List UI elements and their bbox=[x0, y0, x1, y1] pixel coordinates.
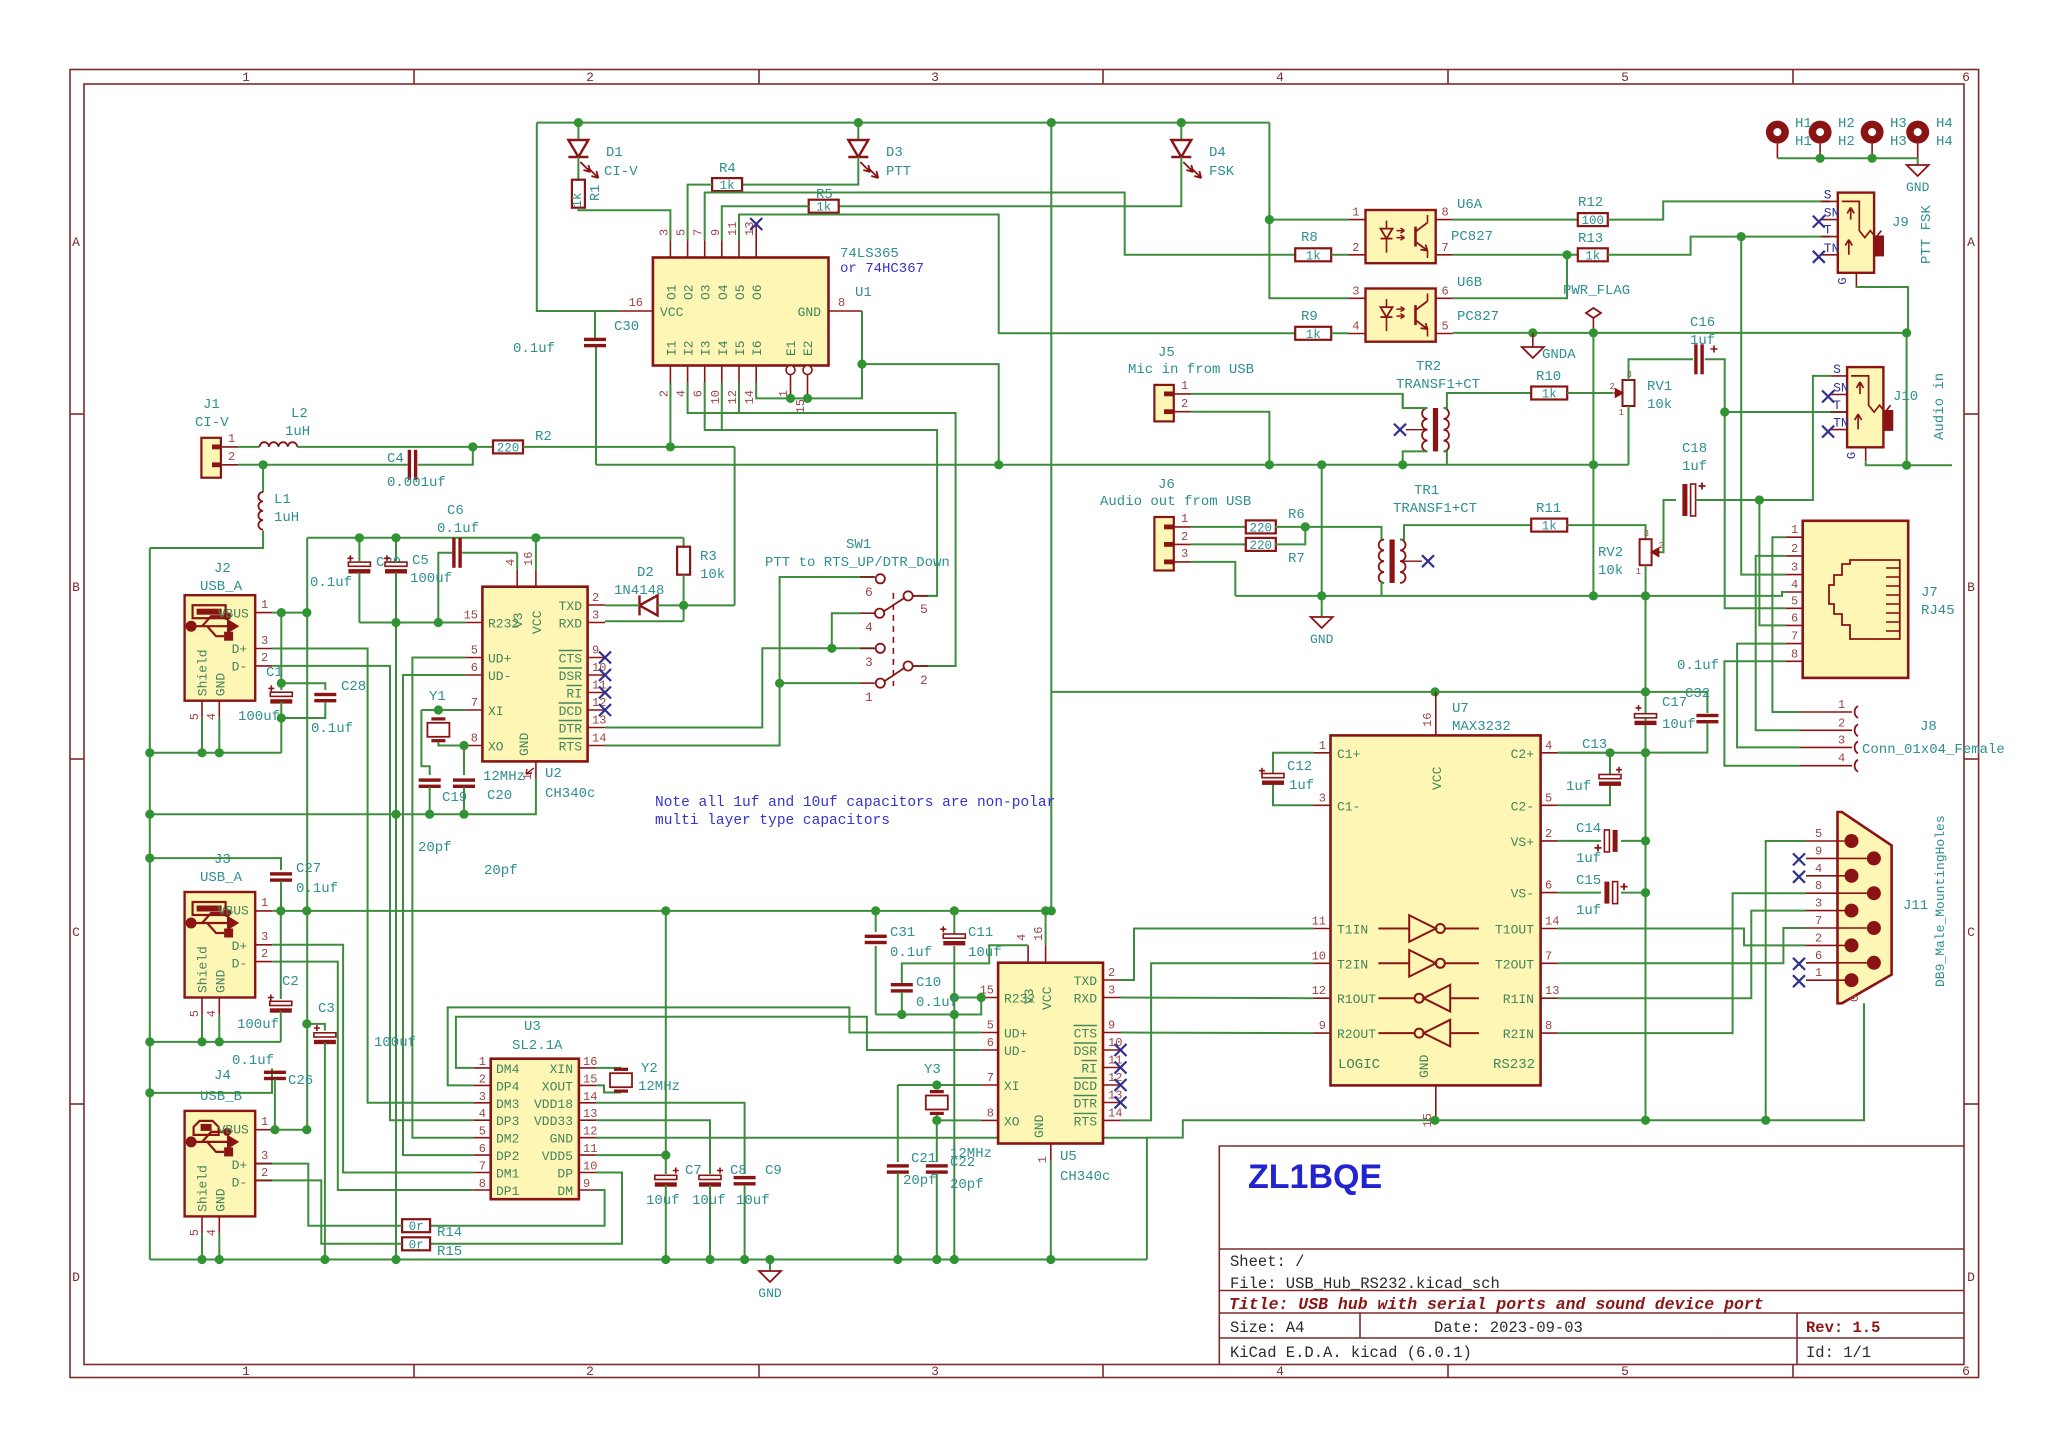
wire RXD row to junction bbox=[605, 620, 684, 622]
mounting hole H3 bbox=[1861, 121, 1884, 144]
wire J4 VBUS row bbox=[272, 1129, 307, 1131]
wire VDD18 to C9 bbox=[596, 1103, 745, 1174]
wire R4 left to U1 pin 5 bbox=[688, 185, 713, 241]
junction spine/J3 VBUS bbox=[302, 906, 311, 915]
svg-text:Size: A4: Size: A4 bbox=[1230, 1319, 1304, 1337]
U7 left pins bbox=[1314, 752, 1331, 754]
switch SW1 contact 2 bbox=[904, 661, 913, 670]
svg-text:T1OUT: T1OUT bbox=[1495, 923, 1534, 938]
svg-text:DCD: DCD bbox=[1074, 1079, 1098, 1094]
svg-text:D: D bbox=[72, 1270, 80, 1285]
svg-text:3: 3 bbox=[931, 1364, 939, 1379]
wire J11 pin5 to GND rail bbox=[1766, 841, 1806, 1120]
junction spine/C3 bbox=[302, 1019, 311, 1028]
junction H3 bbox=[1868, 154, 1877, 163]
svg-text:2: 2 bbox=[1838, 716, 1845, 730]
wire J1 pin2 row bbox=[238, 464, 408, 466]
svg-text:220: 220 bbox=[1250, 521, 1273, 535]
svg-text:3: 3 bbox=[1644, 529, 1649, 539]
svg-text:R11: R11 bbox=[1536, 501, 1561, 517]
wire D1 anode from top rail bbox=[577, 123, 579, 140]
svg-text:VCC: VCC bbox=[530, 610, 545, 634]
TR1 center tap X bbox=[1400, 560, 1422, 562]
svg-text:C30: C30 bbox=[614, 319, 639, 335]
svg-text:RV2: RV2 bbox=[1598, 545, 1623, 561]
wire L1 bottom to GND spine bbox=[150, 531, 263, 548]
junction C14/riser bbox=[1641, 836, 1650, 845]
wire C10 bottom bbox=[901, 992, 903, 1015]
svg-text:2: 2 bbox=[1352, 241, 1359, 255]
svg-text:4: 4 bbox=[865, 620, 873, 635]
svg-text:1uf: 1uf bbox=[1682, 459, 1707, 475]
wire GND bottom rail bbox=[150, 1259, 1147, 1261]
svg-text:6: 6 bbox=[471, 661, 478, 675]
LED D1 bbox=[568, 140, 588, 157]
svg-text:C6: C6 bbox=[447, 503, 464, 519]
svg-text:C10: C10 bbox=[916, 975, 941, 991]
svg-text:Sheet: /: Sheet: / bbox=[1230, 1253, 1304, 1271]
wire E1 stub to row bbox=[790, 397, 792, 399]
svg-text:USB_A: USB_A bbox=[200, 579, 243, 595]
svg-text:6: 6 bbox=[987, 1036, 994, 1050]
svg-text:UD-: UD- bbox=[1004, 1044, 1027, 1059]
wire C6 right to V3 bbox=[462, 552, 517, 554]
wire J10 G row bbox=[1866, 461, 1952, 465]
svg-text:1uf: 1uf bbox=[1690, 333, 1715, 349]
svg-text:R1IN: R1IN bbox=[1503, 992, 1534, 1007]
svg-text:1k: 1k bbox=[1542, 520, 1557, 534]
capacitor C20 bbox=[453, 778, 475, 781]
junction +5 drop bbox=[1047, 906, 1056, 915]
resistor R6 bbox=[1246, 520, 1276, 533]
wire SW1 pin1 to riser bbox=[780, 682, 860, 684]
wire D2 cathode to U2 TXD bbox=[605, 604, 640, 606]
wire U5 R232 row bbox=[954, 997, 981, 999]
no-connect bbox=[1115, 1097, 1127, 1109]
capacitor C29 bbox=[348, 562, 370, 566]
svg-text:10uf: 10uf bbox=[1662, 717, 1696, 733]
switch SW1 mechanical link dashed bbox=[892, 593, 894, 686]
wire C6 left to GND row bbox=[438, 553, 452, 623]
wire C20 bottom to cap rail bbox=[463, 787, 465, 814]
svg-text:11: 11 bbox=[1312, 915, 1326, 929]
svg-text:3: 3 bbox=[1108, 984, 1115, 998]
svg-text:J7: J7 bbox=[1921, 585, 1938, 601]
svg-text:10k: 10k bbox=[1598, 563, 1623, 579]
junction C5/cap rail bbox=[391, 810, 400, 819]
connector J7 RJ45 bbox=[1803, 521, 1909, 678]
U7 VCC pin 16 bbox=[1435, 692, 1437, 736]
svg-text:VDD18: VDD18 bbox=[534, 1097, 573, 1112]
svg-text:Shield: Shield bbox=[196, 1165, 211, 1212]
capacitor C1 bbox=[270, 692, 292, 696]
junction R232 stub bbox=[977, 993, 986, 1002]
optocoupler U6A PC827 bbox=[1366, 210, 1436, 263]
wire SW1 pin5 riser bbox=[928, 595, 937, 597]
junction J4 gnd bbox=[215, 1255, 224, 1264]
svg-text:3: 3 bbox=[479, 1090, 486, 1104]
wire RV1 bottom to GNDA rail bbox=[1628, 406, 1630, 465]
junction GNDA bbox=[1528, 328, 1537, 337]
wire R2 net down to TXD row bbox=[734, 447, 736, 606]
switch SW1 contact 6 bbox=[876, 574, 885, 583]
svg-text:5: 5 bbox=[188, 1229, 202, 1236]
svg-text:SN: SN bbox=[1833, 381, 1849, 396]
J11 pin 4 bbox=[1845, 869, 1859, 883]
switch SW1 lever 1-2 bbox=[884, 668, 905, 682]
svg-text:C20: C20 bbox=[487, 788, 512, 804]
svg-text:Y2: Y2 bbox=[641, 1061, 658, 1077]
junction C11/gnd link bbox=[950, 1010, 959, 1019]
svg-text:74LS365: 74LS365 bbox=[840, 246, 899, 262]
junction RTS/SW1 riser bbox=[775, 679, 784, 688]
J7 pins 1-8 bbox=[1786, 536, 1803, 538]
svg-text:R12: R12 bbox=[1578, 195, 1603, 211]
junction C17 top bbox=[1641, 687, 1650, 696]
capacitor C13 bbox=[1599, 775, 1621, 779]
svg-text:9: 9 bbox=[709, 229, 723, 236]
wire J6 pin1 to R6 bbox=[1191, 526, 1247, 528]
svg-text:8: 8 bbox=[1442, 206, 1449, 220]
svg-text:9: 9 bbox=[583, 1177, 590, 1191]
svg-text:C13: C13 bbox=[1582, 737, 1607, 753]
svg-text:C5: C5 bbox=[412, 553, 429, 569]
svg-text:8: 8 bbox=[479, 1177, 486, 1191]
svg-text:4: 4 bbox=[1791, 578, 1798, 592]
svg-text:DSR: DSR bbox=[559, 669, 583, 684]
svg-text:R2OUT: R2OUT bbox=[1337, 1027, 1376, 1042]
svg-text:5: 5 bbox=[1621, 1364, 1629, 1379]
wire J7 pin2 to J8 pin2 bbox=[1756, 556, 1800, 730]
junction C20/rail bbox=[459, 810, 468, 819]
wire J2 VBUS row bbox=[272, 612, 307, 614]
svg-text:R232: R232 bbox=[488, 617, 519, 632]
junction U1gnd/GNDA rail bbox=[994, 460, 1003, 469]
svg-text:2: 2 bbox=[1181, 397, 1188, 411]
wire junction to TR1 primary bbox=[1305, 527, 1381, 540]
svg-text:7: 7 bbox=[1815, 914, 1822, 928]
resistor R11 bbox=[1531, 519, 1567, 532]
svg-text:O6: O6 bbox=[750, 284, 765, 300]
svg-text:6: 6 bbox=[1962, 1364, 1970, 1379]
svg-text:2: 2 bbox=[261, 947, 268, 961]
resistor R7 bbox=[1246, 538, 1276, 551]
svg-text:R2: R2 bbox=[535, 429, 552, 445]
U5 bottom pin 1 GND bbox=[1050, 1144, 1052, 1161]
resistor R5 bbox=[809, 200, 839, 213]
junction C29/+5 bbox=[355, 533, 364, 542]
frame row ticks bbox=[70, 413, 84, 415]
svg-text:PTT: PTT bbox=[886, 164, 911, 180]
svg-text:0r: 0r bbox=[409, 1238, 424, 1252]
wire R2 right bbox=[523, 446, 735, 448]
wire H4 down to GND symbol bbox=[1917, 158, 1919, 165]
capacitor C28 bbox=[314, 693, 336, 696]
no-connect J11 pin 4 bbox=[1793, 871, 1805, 883]
no-connect J11 pin 6 bbox=[1793, 958, 1805, 970]
svg-text:VS-: VS- bbox=[1511, 887, 1534, 902]
svg-text:TN: TN bbox=[1824, 241, 1840, 256]
svg-text:10: 10 bbox=[1108, 1036, 1122, 1050]
svg-text:2: 2 bbox=[1815, 931, 1822, 945]
capacitor C15 bbox=[1604, 882, 1609, 904]
svg-text:5: 5 bbox=[1545, 791, 1552, 805]
wire J1 pin1 to L2 bbox=[238, 446, 260, 448]
wire U5 V3 from C10 bbox=[902, 945, 1028, 983]
svg-text:220: 220 bbox=[1250, 539, 1273, 553]
svg-text:VCC: VCC bbox=[1040, 986, 1055, 1010]
wire GND rail riser right side bbox=[1147, 1003, 1864, 1259]
junction VCC16/+5 rail bbox=[531, 533, 540, 542]
svg-text:FSK: FSK bbox=[1209, 164, 1235, 180]
svg-text:2: 2 bbox=[261, 1166, 268, 1180]
svg-text:XO: XO bbox=[1004, 1114, 1020, 1129]
svg-text:VCC: VCC bbox=[660, 305, 684, 320]
capacitor C10 bbox=[891, 983, 913, 986]
svg-text:O5: O5 bbox=[733, 284, 748, 300]
ground GNDA symbol bbox=[1522, 347, 1544, 358]
wire J4 gnd down bbox=[218, 1233, 220, 1259]
junction spine/C26 bbox=[145, 1088, 154, 1097]
wire U1 pin12 stub down bbox=[738, 383, 740, 413]
svg-text:C27: C27 bbox=[296, 861, 321, 877]
junction C7/GND rail bbox=[661, 1255, 670, 1264]
svg-text:File: USB_Hub_RS232.kicad_sch: File: USB_Hub_RS232.kicad_sch bbox=[1230, 1275, 1500, 1293]
svg-text:T: T bbox=[1833, 398, 1841, 413]
wire J3 gnd down bbox=[218, 1015, 220, 1042]
svg-text:3: 3 bbox=[592, 609, 599, 623]
svg-text:8: 8 bbox=[471, 732, 478, 746]
svg-text:DP3: DP3 bbox=[496, 1114, 519, 1129]
svg-text:2: 2 bbox=[1610, 382, 1615, 392]
capacitor C19 bbox=[419, 778, 441, 781]
J11 pin 2 bbox=[1845, 938, 1859, 952]
junction U5 VCC/+5 bbox=[1041, 906, 1050, 915]
no-connect J9 TN bbox=[1813, 251, 1825, 263]
svg-text:A: A bbox=[72, 235, 80, 250]
wire mounting holes to GND bbox=[1777, 157, 1917, 159]
wire L1 top bbox=[262, 465, 264, 492]
wire C1 C28 bottoms bbox=[280, 702, 282, 753]
svg-text:O1: O1 bbox=[664, 284, 679, 300]
jack J9 bbox=[1838, 193, 1874, 273]
U2 top pin 16 VCC bbox=[535, 570, 537, 587]
junction U7 GND/rail bbox=[1430, 1116, 1439, 1125]
svg-text:7: 7 bbox=[479, 1160, 486, 1174]
svg-text:5: 5 bbox=[675, 229, 689, 236]
resistor R4 bbox=[712, 178, 742, 191]
svg-text:0.001uf: 0.001uf bbox=[387, 475, 446, 491]
svg-text:0.1uf: 0.1uf bbox=[1677, 658, 1719, 674]
svg-text:PWR_FLAG: PWR_FLAG bbox=[1563, 283, 1630, 299]
wire U1 pin 7 to R8 bbox=[705, 193, 1295, 255]
wire C7 top bbox=[665, 1155, 667, 1174]
svg-text:1k: 1k bbox=[1306, 328, 1321, 342]
wire E2 stub to row bbox=[807, 397, 809, 399]
switch SW1 contact 3 bbox=[876, 644, 885, 653]
svg-text:C28: C28 bbox=[341, 679, 366, 695]
svg-text:XIN: XIN bbox=[550, 1062, 573, 1077]
svg-text:D2: D2 bbox=[637, 565, 654, 581]
svg-text:VS+: VS+ bbox=[1511, 835, 1535, 850]
svg-text:DSR: DSR bbox=[1074, 1044, 1098, 1059]
svg-text:20pf: 20pf bbox=[950, 1177, 984, 1193]
wire R10 to RV1 wiper bbox=[1567, 392, 1613, 394]
transformer TR2 body bbox=[1433, 408, 1438, 451]
junction SW1 3/4 bbox=[827, 644, 836, 653]
svg-text:GND: GND bbox=[550, 1132, 574, 1147]
junction J10G bbox=[1902, 461, 1911, 470]
wire U1 pin10 stub down bbox=[721, 383, 723, 430]
svg-text:PC827: PC827 bbox=[1451, 229, 1493, 245]
junction U6B6/R13 row bbox=[1562, 250, 1571, 259]
svg-text:A: A bbox=[1967, 235, 1975, 250]
wire U2 VCC pin from +5 rail bbox=[535, 538, 537, 570]
wire J3 D- to U3 DP1 bbox=[272, 962, 473, 1190]
wire C26 bottom to VBUS bbox=[274, 1079, 276, 1130]
svg-text:TXD: TXD bbox=[559, 599, 583, 614]
svg-text:1k: 1k bbox=[720, 179, 735, 193]
junction C3/GND rail bbox=[320, 1255, 329, 1264]
svg-text:U3: U3 bbox=[524, 1019, 541, 1035]
U1 top pins bbox=[669, 240, 671, 257]
svg-text:16: 16 bbox=[629, 296, 643, 310]
junction U5 GND/rail bbox=[1046, 1255, 1055, 1264]
svg-text:8: 8 bbox=[1815, 879, 1822, 893]
svg-text:LOGIC: LOGIC bbox=[1338, 1057, 1380, 1073]
wire C5 bottom GND drop bbox=[395, 573, 397, 1260]
svg-text:2: 2 bbox=[1108, 966, 1115, 980]
svg-text:2: 2 bbox=[1545, 827, 1552, 841]
wire D1 cathode to R1 bbox=[577, 157, 579, 181]
wire DM4 riser to U5 UD- bbox=[456, 1017, 981, 1068]
wire R5 left to U1 pin 9 bbox=[722, 206, 809, 240]
svg-text:GND: GND bbox=[1417, 1054, 1432, 1078]
svg-text:DP4: DP4 bbox=[496, 1079, 520, 1094]
svg-text:Shield: Shield bbox=[196, 946, 211, 993]
capacitor C12 wiring bbox=[1273, 753, 1314, 774]
resistor R2 bbox=[493, 440, 523, 453]
svg-text:J3: J3 bbox=[214, 852, 231, 868]
svg-text:GND: GND bbox=[1310, 632, 1334, 647]
junction C6/R232 bbox=[434, 618, 443, 627]
optocoupler U6B PC827 bbox=[1366, 289, 1436, 342]
svg-text:3: 3 bbox=[261, 930, 268, 944]
svg-text:3: 3 bbox=[1352, 284, 1359, 298]
svg-text:1k: 1k bbox=[1542, 388, 1557, 402]
IC U2 CH340c body bbox=[482, 587, 587, 762]
svg-text:DP: DP bbox=[557, 1167, 573, 1182]
wire J6 pin2 to R7 bbox=[1191, 543, 1247, 545]
junction C11/+5 bbox=[950, 906, 959, 915]
junction TR2 bottom bbox=[1398, 460, 1407, 469]
svg-text:VDD33: VDD33 bbox=[534, 1114, 573, 1129]
svg-text:I3: I3 bbox=[699, 340, 714, 356]
capacitor C9 bbox=[734, 1176, 756, 1179]
svg-text:C1+: C1+ bbox=[1337, 747, 1361, 762]
svg-text:10k: 10k bbox=[1647, 397, 1672, 413]
J11 pin 5 bbox=[1845, 834, 1859, 848]
svg-text:UD+: UD+ bbox=[488, 652, 512, 667]
svg-text:H4: H4 bbox=[1936, 134, 1953, 150]
junction C1/C28 bottom bbox=[277, 713, 286, 722]
svg-text:14: 14 bbox=[583, 1090, 597, 1104]
junction C5/R232 bbox=[391, 618, 400, 627]
svg-text:1: 1 bbox=[261, 1115, 268, 1129]
wire J10 S to C18 row riser bbox=[1759, 376, 1830, 500]
junction C10/gnd link bbox=[897, 1010, 906, 1019]
svg-text:1: 1 bbox=[1636, 567, 1641, 577]
junction E1 bbox=[786, 394, 795, 403]
resistor R10 bbox=[1531, 387, 1567, 400]
junction C5/GND rail bbox=[391, 1255, 400, 1264]
svg-text:2: 2 bbox=[586, 70, 594, 85]
svg-text:12: 12 bbox=[1312, 984, 1326, 998]
svg-text:J11: J11 bbox=[1903, 898, 1928, 914]
svg-text:9: 9 bbox=[1319, 1019, 1326, 1033]
svg-text:1: 1 bbox=[261, 598, 268, 612]
wire J6 pin3 to TR1 rail bbox=[1191, 562, 1235, 596]
svg-text:7: 7 bbox=[471, 696, 478, 710]
capacitor C7 bbox=[655, 1175, 677, 1179]
svg-text:Note all 1uf and 10uf capacito: Note all 1uf and 10uf capacitors are non… bbox=[655, 795, 1055, 811]
svg-text:VBUS: VBUS bbox=[218, 1122, 249, 1137]
svg-text:D-: D- bbox=[232, 1175, 248, 1190]
resistor R3 bbox=[677, 547, 690, 575]
svg-text:XOUT: XOUT bbox=[542, 1079, 573, 1094]
junction C9/GND rail bbox=[740, 1255, 749, 1264]
svg-text:4: 4 bbox=[1838, 752, 1845, 766]
wire TR1 secondary top to R11 bbox=[1400, 525, 1531, 539]
U2 top pin 4 V3 bbox=[516, 570, 518, 587]
svg-text:8: 8 bbox=[987, 1106, 994, 1120]
svg-text:J6: J6 bbox=[1158, 477, 1175, 493]
wire top rail to U6A pin1 / U6B pin3 bbox=[1269, 123, 1348, 299]
svg-text:1: 1 bbox=[1838, 698, 1845, 712]
svg-text:H2: H2 bbox=[1838, 134, 1855, 150]
svg-text:KiCad E.D.A. kicad (6.0.1): KiCad E.D.A. kicad (6.0.1) bbox=[1230, 1344, 1472, 1362]
svg-text:VCC: VCC bbox=[1430, 766, 1445, 790]
wire J7 pin7 to J8 pin3 bbox=[1737, 644, 1800, 748]
wire J4 shield down bbox=[201, 1233, 203, 1259]
svg-text:B: B bbox=[72, 580, 80, 595]
svg-text:0r: 0r bbox=[409, 1220, 424, 1234]
switch SW1 contact 5 bbox=[904, 591, 913, 600]
wire +5V rail y=538 C6 area bbox=[307, 537, 683, 539]
svg-text:3: 3 bbox=[261, 1149, 268, 1163]
crystal Y2 bbox=[614, 1068, 628, 1071]
svg-text:16: 16 bbox=[1032, 927, 1046, 941]
svg-text:100uf: 100uf bbox=[238, 709, 280, 725]
svg-text:J10: J10 bbox=[1893, 389, 1918, 405]
wire GND left spine x=150 bbox=[149, 548, 151, 1260]
svg-text:J9: J9 bbox=[1892, 215, 1909, 231]
capacitor C14 bbox=[1613, 830, 1618, 852]
junction C27/C2/VBUS bbox=[276, 906, 285, 915]
svg-text:C2+: C2+ bbox=[1511, 747, 1535, 762]
svg-text:C14: C14 bbox=[1576, 821, 1601, 837]
wire TR2 secondary top to R10 bbox=[1444, 393, 1532, 408]
wire U1 pin14 E1 E2 ground row bbox=[756, 311, 862, 398]
J11 pin 6 bbox=[1867, 956, 1881, 970]
svg-text:T: T bbox=[1824, 223, 1832, 238]
svg-text:D+: D+ bbox=[232, 642, 248, 657]
svg-text:5: 5 bbox=[1815, 827, 1822, 841]
wire C20 top from XO bbox=[463, 746, 465, 776]
svg-text:R2IN: R2IN bbox=[1503, 1027, 1534, 1042]
svg-text:H3: H3 bbox=[1890, 134, 1907, 150]
wire +5V top rail left drop to U1 VCC bbox=[537, 123, 619, 311]
